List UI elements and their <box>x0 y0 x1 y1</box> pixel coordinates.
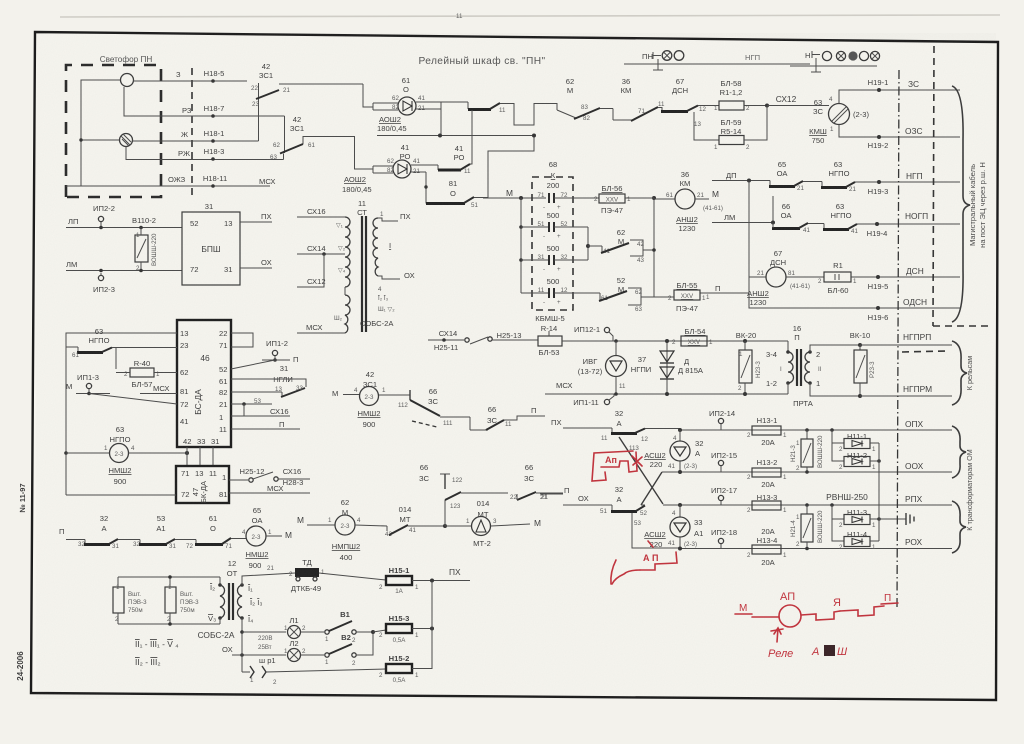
wire Ж row <box>132 140 259 142</box>
relay 65 ОА НМШ2 900 <box>242 506 292 572</box>
wire БС-ДА 21 / СХ16 row <box>231 403 272 405</box>
dashed corner segment right <box>902 351 947 352</box>
contact 66 ЗС (right) <box>470 405 545 430</box>
node Н19-6 / ОДСН <box>876 306 880 310</box>
block БК-ДА 47 <box>176 466 229 503</box>
wire П row (pin 11) <box>231 428 300 430</box>
rails bracket (К рельсам) <box>952 341 967 405</box>
cable bracket (Магистральный кабель) <box>952 86 970 322</box>
contact 66 ОА <box>771 196 824 234</box>
resistor Вшт ПЭВ-3 750м (left) <box>113 577 147 624</box>
wire ballast top rail <box>118 576 220 578</box>
block БПШ <box>182 202 272 285</box>
varistor Н21-4 ВОШШ-220 <box>790 503 824 550</box>
relay 36 КМ АНШ2 1230 <box>654 170 723 233</box>
transformer 12 ОТ СОБС-2А <box>198 559 263 640</box>
wire ОЖЗ row <box>66 185 270 187</box>
contact 42 ЗС1 (lower) <box>270 115 373 169</box>
node Н19-3 / НГП <box>877 180 881 184</box>
contact 014 МТ (left) <box>385 505 445 538</box>
node Н19-5 / ДСН <box>876 275 880 279</box>
fuse Н13-2 20А <box>747 458 787 489</box>
node Н19-2 / ОЗС row <box>877 135 881 139</box>
relay 33 А1 АСШ2 220 <box>644 505 703 549</box>
relay 62 М НМПШ2 400 <box>297 498 387 562</box>
diode Н11-4 <box>832 519 879 551</box>
fuse Н15-3 0,5А <box>379 614 432 644</box>
node Н19-1 / ЗС row <box>877 88 881 92</box>
switch Н25-12 / СХ16 <box>229 467 310 487</box>
lamp green (signal head lamp) <box>121 74 134 87</box>
fuse Н13-4 20А <box>747 527 787 567</box>
capacitor 500 (11-12) <box>521 277 600 306</box>
contact 61 О (П row) <box>195 514 246 550</box>
diode Н11-3 <box>830 503 881 529</box>
wire ballast bottom rail <box>118 623 220 625</box>
wire РПХ row <box>663 504 952 506</box>
node Н18-5 <box>211 79 215 83</box>
ground <box>906 513 914 525</box>
resistor ВК-10 Р23-3 <box>850 331 876 398</box>
capacitor 500 (31-32) <box>521 244 588 273</box>
resistor R1 БЛ-60 <box>818 261 960 295</box>
contact 65 ОА <box>769 160 822 192</box>
relay 32 А АСШ2 220 <box>644 430 703 472</box>
contact 62 М (top chain) <box>557 77 613 122</box>
terminal ИП2-3 <box>98 275 103 280</box>
dashed corner at ОДСН bottom <box>933 325 993 327</box>
wire common vertical Н11 <box>878 443 880 541</box>
wire НГПРП bus <box>860 344 952 346</box>
node Н18-11 <box>211 184 215 188</box>
contact 63 НГПО (left) <box>66 327 177 369</box>
red sketch relay АПШ <box>735 591 898 660</box>
diode Н11-2 <box>832 443 881 471</box>
wire М diagonal to pin 72 <box>89 394 177 405</box>
red annotation АП box (upper) <box>592 451 637 481</box>
fuse Н13-1 20А <box>747 416 787 447</box>
lamp yellow hatched <box>120 134 133 147</box>
wire ОПХ row <box>680 429 952 431</box>
contact 32 А (П row) <box>78 514 140 550</box>
contact 66 ЗС (МТ branch) <box>419 463 517 526</box>
wire БС-ДА pin13 row / left wall <box>66 333 177 495</box>
contact 61 О (lower) with pin 51 <box>424 136 534 209</box>
contact 63 НГПО (НОГП row) <box>823 202 960 235</box>
relay ИВГ 37 НГПИ <box>578 341 652 394</box>
varistor В110-2 ВОШШ-220 <box>132 216 158 272</box>
resistor Вшт ПЭВ-3 750м (right) <box>165 577 199 624</box>
diodes Д815А (zener pair) <box>660 339 704 396</box>
resistor ВК-20 Н23-3 <box>736 331 762 396</box>
wire caps 51/31 join <box>587 227 589 260</box>
svg-text:24-2006: 24-2006 <box>16 651 25 681</box>
contact 32 А (ПХ row) <box>563 409 680 452</box>
contact 66 ЗС (transfer, left) <box>398 387 470 427</box>
varistor Н21-3 ВОШШ-220 <box>790 428 824 474</box>
contact 31 НГЛИ <box>231 364 306 397</box>
terminal strip dashed line <box>191 68 193 196</box>
wire ООХ row <box>662 471 952 473</box>
wire I4 down feed <box>241 618 243 672</box>
node ПХ <box>430 579 434 583</box>
contact 66 ЗС (П end) <box>517 463 563 501</box>
switch В1 <box>325 610 373 644</box>
contact 67 ДСН (top chain) <box>672 77 688 95</box>
plug шр1 <box>242 656 386 686</box>
node В1/В2 join <box>371 630 375 634</box>
lamp КМШ 750 (63 ЗС) <box>767 90 960 145</box>
wires БС-ДА bottom pins to БК-ДА <box>186 447 188 466</box>
wire РОХ row <box>680 548 952 550</box>
wire РЖ row <box>126 147 284 160</box>
resistor Р-40 БЛ-57 <box>116 359 177 389</box>
diode unit АОШ2 180/0,45 (lower, 41 РО) <box>342 143 438 194</box>
resistor БЛ-56 ПЭ-47 <box>594 184 654 215</box>
contact 61 О (upper) <box>441 102 557 125</box>
contact 52 М (cap bank) <box>599 276 654 313</box>
contact 41 РО <box>438 110 472 175</box>
node Н18-3 <box>211 157 215 161</box>
node Н19-4 / НОГП <box>875 222 879 226</box>
node СХ12 <box>765 104 769 108</box>
wire top rail НГПРП side <box>617 340 788 342</box>
lamp Л1 <box>284 616 324 639</box>
red X mark <box>632 456 642 466</box>
capacitor 200 К (71-72) <box>538 192 599 211</box>
common return wire <box>66 80 120 186</box>
switch В2 <box>325 632 373 667</box>
wire БК-ДА 72 row to left wall <box>66 494 176 496</box>
svg-text:№ 11-97: № 11-97 <box>18 483 27 512</box>
relay 42 ЗС1 НМШ2 900 <box>354 370 410 429</box>
fuse Н15-2 0,5А <box>379 581 432 685</box>
svg-text:11: 11 <box>456 13 463 20</box>
dashed cable line vertical <box>933 46 934 326</box>
contact 32 А (ОХ row) <box>600 485 647 517</box>
wire МСХ row БК-ДА 81 <box>229 492 310 494</box>
block БС-ДА 46 <box>177 320 231 447</box>
relay МТ-2 014 МТ <box>445 499 541 548</box>
signal head ПН symbol <box>624 51 810 70</box>
node МТ junction <box>443 524 447 528</box>
transformer ПРТА 16 П <box>766 324 860 408</box>
wire БС-ДА 22-71 loop <box>231 333 253 347</box>
wire З row <box>133 80 247 82</box>
resistor БЛ-55 ПЭ-47 <box>654 281 706 313</box>
signal head Н symbol <box>790 51 880 72</box>
capacitor 500 (51-52) <box>521 211 588 240</box>
wire to ground <box>879 518 906 520</box>
relay 67 ДСН АНШ2 1230 <box>747 249 824 307</box>
fuse Н13-3 <box>747 493 787 514</box>
wire ОТ to ТД to Н15-1 <box>242 573 295 585</box>
relay 63 НГПО НМШ2 900 <box>66 425 189 486</box>
wire X crossing (ОХ to ООХ) <box>641 472 662 505</box>
wire СХ16 row <box>231 415 290 417</box>
resistor БЛ-54 XXV <box>672 327 713 346</box>
resistor БЛ-58 R1-1,2 <box>714 79 767 112</box>
fuse Н15-1 1А <box>379 566 470 595</box>
transducer ТД ДТКБ-49 <box>289 558 325 593</box>
switch СХ14 Н25-11 / Н25-13 <box>428 329 538 352</box>
contact 62 М (cap bank) <box>601 228 654 264</box>
Светофор ПН dashed enclosure <box>66 55 161 197</box>
contact 42 ЗС1 (upper) <box>251 62 363 141</box>
vertical link М chain <box>653 198 655 297</box>
contact 53 А1 (П row) <box>133 514 196 550</box>
wire НГПРМ bus <box>860 395 952 397</box>
node Н18-1 <box>211 139 215 143</box>
red annotation АП (lower РОХ) <box>611 541 677 584</box>
transformer СТ 11 СОБС-2А <box>297 199 415 333</box>
dash-dot separation line <box>897 70 899 610</box>
transformer bracket РПХ/РОХ <box>952 501 966 553</box>
transformer bracket ОПХ/ООХ <box>952 426 966 478</box>
wire БС-ДА 52 diagonal <box>231 360 275 369</box>
lamp Л2 <box>284 639 324 662</box>
node Н18-7 <box>211 114 215 118</box>
wire X crossing (ПХ to 33 А1) <box>619 437 663 504</box>
М bus horizontal <box>377 135 534 137</box>
wire РЗ row <box>124 87 285 116</box>
diode Н11-1 <box>830 428 879 453</box>
wire diode to М bus <box>440 109 442 136</box>
diode unit АОШ2 180/0,45 (upper, 61 О) <box>363 76 441 133</box>
resistor R-14 БЛ-53 <box>538 324 617 357</box>
resistor БЛ-59 R5-14 branch <box>694 106 767 152</box>
contact 63 НГПО (НГП row) <box>821 160 960 193</box>
contact 36 КМ (top chain) <box>613 77 719 128</box>
